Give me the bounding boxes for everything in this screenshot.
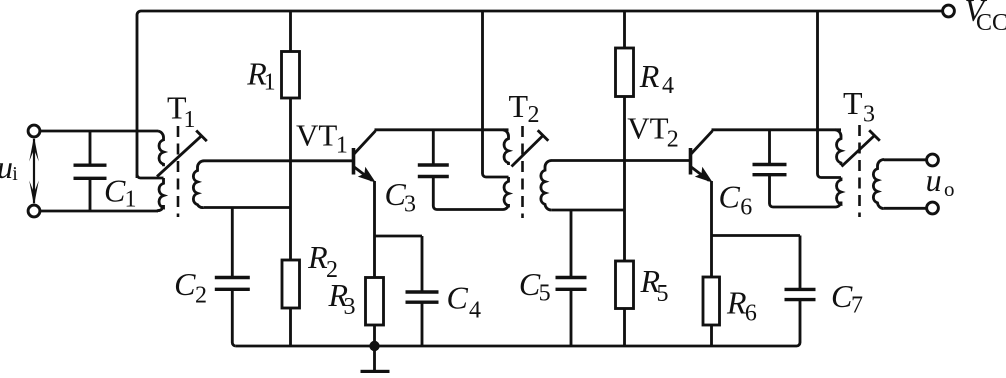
wire emitter to C4	[375, 235, 423, 238]
transformer T3 primary bottom	[836, 178, 842, 208]
resistor R6	[703, 277, 720, 325]
terminal VCC	[943, 5, 955, 17]
svg-text:7: 7	[851, 293, 863, 319]
svg-text:4: 4	[662, 73, 674, 99]
svg-text:R: R	[639, 58, 660, 94]
transformer T3 core	[858, 125, 861, 217]
wire T2 secondary bottom	[551, 209, 624, 212]
wire rail to R1	[289, 11, 292, 52]
wire input top	[40, 130, 159, 133]
transformer T2 core	[521, 126, 524, 218]
wire T1 secondary to VT1 base	[204, 159, 352, 162]
wire VT2 collector to tank	[712, 128, 842, 131]
wire T1 secondary bottom	[204, 206, 291, 209]
wire emitter2 to C7	[712, 234, 801, 237]
terminal output top	[927, 154, 939, 166]
transformer T3 tuning arrow	[842, 136, 875, 167]
wire VCC to T2 tap	[483, 11, 509, 177]
svg-text:u: u	[926, 162, 942, 198]
transformer T1 primary top	[158, 131, 164, 166]
svg-text:1: 1	[184, 107, 196, 133]
wire R6 to rail	[710, 325, 713, 346]
wire VCC top rail	[137, 11, 943, 178]
capacitor C4	[406, 290, 439, 293]
terminal output bottom	[927, 202, 939, 214]
transformer T3 secondary	[873, 160, 884, 209]
svg-text:i: i	[12, 163, 18, 185]
svg-text:u: u	[0, 149, 13, 185]
transformer T2 primary top	[503, 130, 509, 165]
resistor R1	[282, 52, 300, 99]
svg-text:C: C	[831, 278, 853, 314]
svg-text:T: T	[509, 88, 529, 124]
wire output bottom	[884, 207, 927, 210]
svg-text:3: 3	[344, 294, 356, 320]
transistor VT1 emitter	[354, 167, 373, 181]
wire rail to R4	[623, 11, 626, 49]
wire VT1 emitter down	[373, 181, 376, 278]
terminal input bottom	[28, 205, 40, 217]
wire C2 drop	[231, 208, 234, 278]
transformer T1 primary bottom	[157, 178, 164, 211]
wire ground rail	[236, 345, 797, 348]
transistor VT1 collector	[354, 131, 376, 155]
capacitor C6	[768, 130, 771, 165]
capacitor C7	[785, 288, 816, 291]
svg-text:3: 3	[863, 102, 875, 128]
svg-text:4: 4	[469, 298, 481, 324]
svg-text:C: C	[104, 173, 126, 209]
svg-text:C: C	[447, 280, 469, 316]
svg-text:1: 1	[336, 133, 348, 159]
svg-text:2: 2	[667, 127, 679, 153]
capacitor C1	[89, 131, 92, 165]
wire VCC to T3 tap	[818, 11, 842, 178]
svg-text:1: 1	[264, 70, 276, 96]
wire R2 to ground rail	[289, 308, 292, 346]
svg-text:VT: VT	[627, 110, 668, 145]
transformer T3 primary top	[836, 130, 842, 165]
wire T2 secondary to VT2 base	[551, 159, 689, 162]
wire R4 to R5	[623, 97, 626, 262]
resistor R5	[616, 261, 634, 309]
svg-text:3: 3	[404, 192, 416, 218]
svg-text:C: C	[174, 266, 196, 302]
wire R1 to R2	[289, 98, 292, 261]
wire input bottom	[40, 210, 159, 213]
svg-text:5: 5	[539, 281, 551, 307]
wire VT1 collector to tank	[375, 128, 509, 131]
junction dot ground node	[369, 341, 379, 351]
svg-text:VT: VT	[296, 118, 337, 153]
transistor VT2 collector	[691, 131, 713, 155]
svg-text:CC: CC	[976, 10, 1006, 36]
transformer T1 tuning arrow	[157, 136, 202, 177]
capacitor C2	[215, 276, 250, 279]
ground	[373, 346, 376, 370]
svg-text:o: o	[944, 177, 955, 201]
resistor R4	[616, 48, 634, 97]
svg-text:2: 2	[528, 102, 540, 128]
transistor VT1 base bar	[352, 148, 356, 175]
svg-text:2: 2	[195, 283, 207, 309]
transistor VT2 base bar	[689, 148, 693, 175]
wire R5 to rail	[623, 309, 626, 347]
svg-text:C: C	[519, 266, 541, 302]
wire C5 drop	[570, 210, 573, 278]
svg-text:6: 6	[740, 195, 752, 221]
capacitor C5	[556, 276, 587, 279]
terminal input top	[28, 125, 40, 137]
svg-text:6: 6	[745, 301, 757, 327]
transistor VT2 emitter	[691, 167, 710, 181]
wire VT2 emitter down	[710, 181, 713, 278]
svg-text:R: R	[726, 285, 747, 321]
resistor R3	[366, 278, 384, 326]
transformer T1 core	[177, 126, 180, 217]
wire output top	[884, 158, 927, 161]
capacitor C3	[432, 130, 435, 165]
resistor R2	[282, 260, 300, 308]
transformer T2 secondary	[541, 161, 552, 211]
transformer T2 primary bottom	[503, 177, 509, 210]
transformer T1 secondary	[193, 161, 204, 208]
wire R3 to rail	[373, 325, 376, 346]
svg-text:C: C	[719, 179, 741, 215]
transformer T2 tuning arrow	[512, 136, 544, 167]
svg-text:5: 5	[657, 281, 669, 307]
svg-text:R: R	[307, 239, 328, 275]
wire VCC to T1 tap	[137, 175, 164, 179]
arrow ui double	[33, 139, 35, 203]
svg-text:T: T	[843, 85, 863, 121]
svg-text:1: 1	[125, 187, 137, 213]
